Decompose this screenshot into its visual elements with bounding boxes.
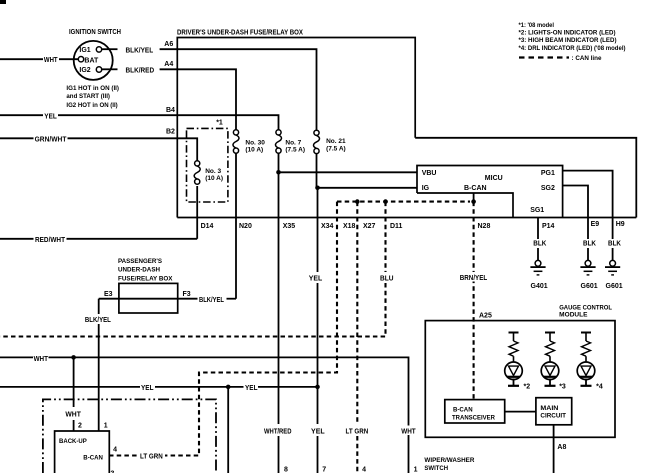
X27 CAN line down to pin 4 [356, 202, 358, 424]
svg-text:F3: F3 [183, 291, 191, 298]
B-CAN bus dashed [337, 201, 470, 203]
svg-text:and START (III): and START (III) [66, 93, 110, 100]
LED *3 [541, 333, 559, 386]
svg-text:YEL: YEL [245, 385, 258, 392]
svg-text:No. 7: No. 7 [285, 139, 301, 146]
VBU wire [279, 171, 418, 173]
svg-text:CIRCUIT: CIRCUIT [540, 413, 566, 420]
svg-text:A4: A4 [164, 61, 173, 68]
junction VBU [276, 170, 281, 175]
label LT GRN (backup) [138, 451, 166, 461]
svg-text:BLK/YEL: BLK/YEL [126, 47, 154, 54]
BACK-UP box [55, 431, 110, 473]
N28 CAN line down to gauge module [473, 202, 475, 400]
wire A6 into box, down to fuse 21 [160, 49, 317, 130]
wire E3 down to backup pin1 [98, 299, 100, 314]
SG2 wire to E9 ground [563, 186, 588, 240]
fuse No.3 [194, 161, 200, 184]
fuse No.7 [276, 130, 282, 153]
long bottom line [177, 217, 636, 219]
SG1/P14 wire to ground [537, 218, 539, 240]
svg-text:2: 2 [78, 423, 82, 430]
svg-text:IG1: IG1 [79, 47, 90, 54]
svg-text:SG1: SG1 [530, 207, 544, 214]
B-CAN pin stub [473, 193, 475, 202]
svg-text:WHT: WHT [44, 57, 58, 64]
label YEL on X34 [307, 273, 325, 283]
wire transceiver to main [505, 411, 536, 413]
ground G401 [530, 260, 545, 275]
svg-text:1: 1 [104, 423, 108, 430]
svg-text:IG2 HOT in ON (II): IG2 HOT in ON (II) [66, 102, 117, 109]
svg-text:MICU: MICU [485, 175, 503, 182]
svg-text:X35: X35 [283, 223, 296, 230]
fuse No.21 [314, 130, 320, 153]
svg-text:B-CAN: B-CAN [453, 407, 473, 414]
svg-text:P14: P14 [542, 223, 555, 230]
svg-text:N28: N28 [478, 223, 491, 230]
svg-text:E9: E9 [591, 221, 600, 228]
label BLK/YEL (F3) [198, 295, 227, 305]
svg-text:G601: G601 [606, 283, 623, 290]
svg-text:WHT/RED: WHT/RED [264, 428, 292, 435]
svg-text:PASSENGER'S: PASSENGER'S [118, 258, 163, 265]
svg-text:BLK: BLK [608, 241, 621, 248]
svg-text:D14: D14 [201, 223, 214, 230]
junction dot WHT [71, 355, 76, 360]
svg-text:8: 8 [284, 466, 288, 473]
svg-text:SG2: SG2 [541, 185, 555, 192]
svg-text:A6: A6 [164, 41, 173, 48]
svg-text:4: 4 [113, 447, 117, 454]
svg-text:No. 21: No. 21 [326, 138, 346, 145]
svg-text:MODULE: MODULE [559, 312, 588, 319]
dash-dot-dot box backup unit [43, 399, 216, 473]
svg-text:*4: DRL INDICATOR (LED) ('08 m: *4: DRL INDICATOR (LED) ('08 model) [519, 45, 626, 52]
svg-text:N20: N20 [239, 223, 252, 230]
svg-text:B-CAN: B-CAN [464, 185, 487, 192]
LED *2 [505, 333, 523, 386]
svg-text:WHT: WHT [34, 356, 49, 363]
svg-text:WHT: WHT [65, 411, 81, 418]
svg-text:IG: IG [422, 185, 430, 192]
YEL long wire [0, 386, 140, 388]
svg-text:YEL: YEL [311, 428, 325, 435]
main circuit box [536, 398, 572, 425]
svg-text:B4: B4 [166, 107, 175, 114]
svg-text:MAIN: MAIN [540, 405, 558, 412]
wire fuse30 down to F3 line (N20) [235, 153, 237, 299]
svg-text:G401: G401 [531, 283, 548, 290]
B-CAN transceiver box [445, 400, 505, 423]
ground G601 (H9) [605, 260, 620, 275]
wire A4 into box, down to fuse 30 [160, 69, 236, 130]
X18 CAN line: down, left, down, left to backup pin4 [109, 202, 337, 456]
svg-text:UNDER-DASH: UNDER-DASH [118, 267, 160, 274]
svg-text:: CAN line: : CAN line [572, 55, 602, 62]
svg-text:PG1: PG1 [541, 170, 555, 177]
wire IG2 to A4 [102, 68, 118, 70]
wire IG1 to A6 [102, 48, 118, 50]
svg-text:(7.5 A): (7.5 A) [326, 145, 346, 152]
IG wire [318, 187, 418, 189]
svg-text:H9: H9 [616, 221, 625, 228]
svg-text:BLK: BLK [533, 241, 546, 248]
wire YEL to B4 [0, 114, 43, 116]
svg-text:FUSE/RELAY BOX: FUSE/RELAY BOX [118, 275, 173, 282]
svg-text:YEL: YEL [44, 113, 57, 120]
svg-text:TRANSCEIVER: TRANSCEIVER [452, 414, 495, 421]
svg-text:BLK/YEL: BLK/YEL [199, 297, 225, 304]
svg-text:BAT: BAT [84, 57, 99, 64]
svg-text:*1: '08 model: *1: '08 model [519, 22, 555, 29]
svg-text:A25: A25 [479, 313, 492, 320]
svg-text:WHT: WHT [401, 428, 416, 435]
terminal IG2 [96, 67, 101, 72]
WHT long wire [0, 356, 33, 358]
driver's fuse/relay box outline [177, 38, 415, 218]
svg-text:A8: A8 [557, 444, 566, 451]
svg-text:IG1 HOT in ON (II): IG1 HOT in ON (II) [66, 85, 119, 92]
svg-text:LT GRN: LT GRN [346, 428, 369, 435]
svg-text:*2: *2 [524, 383, 531, 390]
svg-text:DRIVER'S UNDER-DASH FUSE/RELAY: DRIVER'S UNDER-DASH FUSE/RELAY BOX [177, 29, 303, 36]
wire WHT down to backup pin2 [73, 357, 75, 407]
wire fuse7 down (X35) to bottom [278, 153, 280, 424]
svg-text:No. 30: No. 30 [245, 139, 265, 146]
svg-text:7: 7 [322, 466, 326, 473]
svg-text:IG2: IG2 [79, 67, 90, 74]
labels above wiper/washer switch [262, 426, 293, 436]
svg-text:RED/WHT: RED/WHT [35, 237, 66, 244]
D11 CAN line down, left to edge [384, 202, 386, 272]
gauge control module box [425, 321, 615, 438]
svg-text:(10 A): (10 A) [245, 147, 263, 154]
svg-text:GRN/WHT: GRN/WHT [35, 137, 67, 144]
legend CAN line sample [519, 56, 569, 58]
wire WHT to BAT [0, 58, 43, 60]
svg-text:BLK/RED: BLK/RED [126, 67, 155, 74]
svg-text:SWITCH: SWITCH [424, 465, 448, 472]
svg-text:(10 A): (10 A) [205, 175, 223, 182]
svg-text:BLK: BLK [583, 241, 596, 248]
svg-text:X34: X34 [321, 223, 334, 230]
svg-text:*4: *4 [596, 383, 603, 390]
MICU box [417, 166, 563, 218]
svg-text:X27: X27 [363, 223, 376, 230]
ground G601 [580, 260, 595, 275]
junction IG [315, 186, 320, 191]
svg-text:*3: HIGH BEAM INDICATOR (LED): *3: HIGH BEAM INDICATOR (LED) [519, 37, 617, 44]
wire GRN/WHT to B2 [0, 137, 34, 139]
svg-text:1: 1 [414, 466, 418, 473]
label BRN/YEL [458, 272, 491, 282]
svg-text:BLU: BLU [380, 276, 394, 283]
svg-text:No. 3: No. 3 [205, 168, 221, 175]
svg-text:VBU: VBU [422, 170, 437, 177]
wire RED/WHT [0, 238, 34, 240]
passenger's under-dash fuse/relay box [119, 283, 178, 313]
svg-text:GAUGE CONTROL: GAUGE CONTROL [559, 304, 612, 311]
svg-text:B-CAN: B-CAN [83, 454, 103, 461]
svg-text:B2: B2 [166, 128, 175, 135]
svg-text:*1: *1 [216, 120, 223, 127]
label BLU on D11 [378, 273, 396, 283]
svg-text:IGNITION SWITCH: IGNITION SWITCH [69, 29, 121, 36]
terminal BAT [78, 57, 83, 62]
dash-dot box *1 [187, 128, 228, 202]
svg-text:G601: G601 [581, 283, 598, 290]
svg-text:BRN/YEL: BRN/YEL [460, 275, 488, 282]
svg-text:(7.5 A): (7.5 A) [285, 147, 305, 154]
fuse No.30 [233, 130, 239, 153]
junction dot YEL-2 [315, 385, 320, 390]
svg-text:*2: LIGHTS-ON INDICATOR (LED): *2: LIGHTS-ON INDICATOR (LED) [519, 29, 616, 36]
svg-text:WIPER/WASHER: WIPER/WASHER [424, 457, 474, 464]
ignition switch body [74, 41, 113, 80]
svg-text:*3: *3 [559, 383, 566, 390]
wire A8 [553, 425, 555, 473]
wire fuse21 down (X34) to bottom [316, 154, 318, 188]
junction dot YEL-1 [226, 385, 231, 390]
svg-text:D11: D11 [390, 223, 403, 230]
svg-text:E3: E3 [104, 291, 113, 298]
wire fusebox to micu bottom right [415, 138, 636, 218]
terminal IG1 [96, 47, 101, 52]
svg-text:YEL: YEL [309, 276, 323, 283]
wire down from YEL junction [227, 387, 229, 473]
svg-text:BLK/YEL: BLK/YEL [85, 317, 112, 324]
PG1 wire to H9 ground [563, 171, 613, 239]
corner scan blob [0, 0, 6, 4]
LED *4 [577, 333, 595, 386]
svg-text:YEL: YEL [141, 385, 154, 392]
svg-text:BACK-UP: BACK-UP [59, 438, 87, 445]
svg-text:LT GRN: LT GRN [140, 454, 163, 461]
svg-text:4: 4 [362, 466, 366, 473]
wire fuse3 down to red/wht [196, 186, 198, 239]
svg-text:X18: X18 [343, 223, 356, 230]
wire E3 through box to N20 [99, 298, 198, 300]
